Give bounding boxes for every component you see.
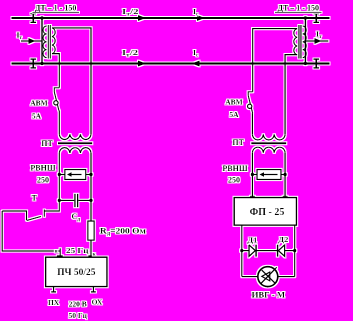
diode D2 [278,245,285,257]
arrow Ic bottom rail (points left) [192,61,200,67]
DT right: secondary winding arcs [294,29,297,55]
svg-text:Iс: Iс [193,7,199,18]
svg-text:Д2: Д2 [278,235,288,244]
svg-text:ПЧ 50/25: ПЧ 50/25 [57,268,96,278]
svg-text:РВНШ: РВНШ [222,164,247,173]
DT left: secondary winding arcs [52,28,55,54]
rail 1 (top) [12,17,330,19]
wire: left branch left vertical [58,153,60,201]
filter FP-25 box [234,196,296,225]
svg-text:50 Гц: 50 Гц [68,311,87,320]
capacitor Cd [59,194,91,208]
PT left core [58,142,92,144]
node: RVNSh left [58,173,61,176]
DT left: core [48,25,50,59]
DT right: primary winding arcs [303,26,307,58]
insulating joint bottom-left [31,59,37,68]
wire: DT right secondary top tap to left vertical [253,29,298,92]
wire: left branch right vertical [90,153,92,221]
resistor RVNSh-250 (left, adjustable) [59,170,91,180]
wire: DT left secondary top tap to right vertical [52,28,91,134]
transformer PT (right): top winding [252,134,285,140]
rail 2 (bottom) [12,63,330,65]
wire: FP bottom right riser [294,225,296,276]
svg-text:ДТ – 1 - 150: ДТ – 1 - 150 [35,3,77,12]
node: cap right [89,199,92,202]
node: RVNSh right-right [283,173,286,176]
PT left bottom winding [59,148,91,153]
impedance bond DT-1-150 (left): main winding wire [40,16,43,65]
insulating joint top-left [31,14,37,23]
svg-text:220 В: 220 В [69,300,87,309]
arrow It/2 bottom rail [138,61,146,67]
transmitter contact T [2,200,59,220]
arrow It/2 top rail [138,15,146,21]
svg-text:ПХ: ПХ [48,298,60,307]
svg-text:ОХ: ОХ [92,298,103,307]
insulating joint bottom-right [314,59,320,68]
svg-text:Iт/2: Iт/2 [122,48,138,59]
circuit breaker AVM 5A (right) [248,92,253,113]
PT right core [251,142,286,144]
svg-text:ДТ – 1 - 150: ДТ – 1 - 150 [277,3,319,12]
node: cap left [58,199,61,202]
svg-text:25 Гц: 25 Гц [66,246,89,255]
svg-text:АВМ: АВМ [30,99,48,108]
svg-text:Iт: Iт [17,31,23,42]
transformer PT (left): top winding [59,134,91,139]
svg-text:Iс: Iс [193,48,199,59]
wire: loop to PCh terminal n [2,211,60,258]
node: RVNSh right-left [251,173,254,176]
node: RVNSh right [89,173,92,176]
arrow Ic top rail [197,15,205,21]
wire: diode row [242,250,295,252]
wire: It arrow into left DT centre [21,38,42,44]
wire: DT right secondary bottom tap [285,55,297,135]
svg-text:АВМ: АВМ [225,98,243,107]
wire [58,111,60,135]
svg-text:250: 250 [228,176,240,185]
svg-text:250: 250 [37,176,49,185]
circuit breaker AVM 5A (left) [54,88,60,111]
svg-text:Rд=200 Ом: Rд=200 Ом [100,226,146,238]
wire [251,113,253,134]
wire: Rd to PCh terminal k [90,240,92,257]
impedance bond DT-1-150 (right): main winding wire [304,16,307,65]
svg-text:Iт/2: Iт/2 [122,7,139,18]
relay IVG-M [242,267,295,287]
svg-text:РВНШ: РВНШ [30,164,55,173]
node: diode row left [240,249,243,252]
svg-text:5А: 5А [32,112,42,121]
wire: right branch verticals [252,153,285,198]
PT right bottom winding [252,147,285,153]
wire: PCh bottom terminals [51,287,96,292]
diode D1 [249,245,256,257]
svg-text:ПТ: ПТ [232,138,244,147]
svg-text:ПТ: ПТ [41,139,53,148]
wire: It arrow out of right DT centre [305,38,328,44]
wire: DT left secondary bottom tap to left vertical [52,54,59,88]
svg-text:Т: Т [32,194,38,203]
svg-text:5А: 5А [229,110,239,119]
insulating joint top-right [314,14,320,23]
svg-text:Сд: Сд [72,212,81,223]
wire: FP bottom left riser [241,225,243,276]
DT right: core [299,25,301,59]
DT left: primary winding arcs [43,26,47,58]
resistor RVNSh-250 (right, adjustable) [252,170,285,180]
svg-text:ИВГ - М: ИВГ - М [252,290,286,300]
svg-text:Д1: Д1 [247,236,257,245]
resistor Rd [88,221,94,240]
svg-text:ФП - 25: ФП - 25 [250,207,285,218]
converter PCh 50/25 box [46,256,107,287]
svg-text:Iт: Iт [316,30,322,41]
node: diode row right [293,249,296,252]
